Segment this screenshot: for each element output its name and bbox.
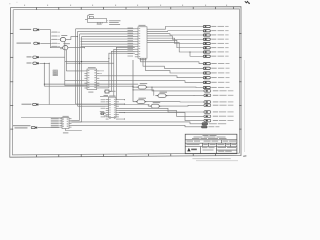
connector E2 [202,126,208,128]
speck top left [9,2,10,5]
relay K2 [158,94,166,98]
relay K3 [137,100,145,104]
U4 label above [109,95,115,98]
U4 inner pin marks [109,99,115,119]
relay K2 left feed [133,89,154,91]
transistor Q2 [63,46,68,50]
title row2 texts [187,140,194,143]
relay K4 left feed [147,104,149,106]
input connector J6 [13,125,31,126]
U2 left pins [84,70,87,72]
title row3 texts [187,143,200,146]
terminal label stack x53 [53,70,58,72]
wire input6 [38,127,60,129]
input connector J5 [22,104,32,105]
wire input1 [40,29,51,31]
U2 label above [88,66,96,69]
wire stub from cluster [107,20,109,22]
border zone ticks bottom [36,153,215,157]
U1 lower pins wires left-down [116,47,135,99]
border zone ticks top [36,7,233,10]
wire input2 [40,42,50,44]
wire input5 [39,104,149,106]
wire to row A8 branch [190,52,203,56]
IC U1 body [138,27,147,58]
vertical feed to relays [132,60,134,102]
U2 right pins [97,70,100,72]
border zone ticks left [10,33,13,129]
U2 label below [88,91,93,94]
wires group C [149,86,204,88]
U1 label bottom [140,58,147,61]
wires group B staircase [141,58,204,63]
long horizontal y117.5 [21,117,62,119]
U3 inner pin marks [63,118,69,127]
microtext bottom numbering [196,159,238,162]
title bottom cells text [202,146,208,149]
U1 inner pin marks [139,28,141,57]
connector group A stack [203,25,210,27]
border zone ticks right [239,33,241,129]
microtext below title [192,157,230,160]
border frame inner [12,9,239,155]
capacitor C10 [105,90,109,93]
bus vertical x44 [43,63,45,86]
bundle to IC3 risers [72,119,80,121]
transistor Q1 [61,37,66,41]
vertical drops below Q [64,42,66,86]
resistor R10 [104,94,109,97]
mark bottom right [243,155,246,158]
Q1 leads [59,38,62,40]
U3 label below [63,131,69,134]
IC U4 body [109,97,116,117]
U1 fan-in horizontals [76,28,135,30]
IC U2 body [87,69,97,90]
label below box [97,24,102,25]
border frame outer [10,7,241,158]
U4 right short wires [119,99,125,101]
notes text block [109,19,120,22]
U2 inner pin marks [88,70,97,88]
small parts below IC4 [100,113,106,115]
U3 left pins [59,118,62,120]
wire input4 [39,62,49,64]
connector group C stack [204,90,211,93]
bundle long verticals [75,29,77,104]
bundle to IC4 left pins [76,103,106,105]
IC U3 body [62,118,69,129]
U1 left pin stubs and labels [135,28,138,30]
wires group D staircase [119,108,204,112]
pin labels left bus [52,31,57,34]
TRW logo [187,148,190,152]
crystal wires [87,15,89,18]
long horizontals y84-86 [44,83,138,85]
U2 right wires short [99,70,104,72]
crystal Y1 label [89,13,94,16]
zone numerals top [24,5,227,6]
pin ticks below box [96,22,98,25]
wire input4 drop [48,63,50,104]
connector group B stack [203,62,210,64]
wires group B from IC2 [99,76,203,78]
input connector J4 [27,63,32,64]
U3 below wire [66,129,82,131]
crystal Y1 [89,16,93,18]
input connector J3 [27,56,32,57]
oscillator group box [88,18,107,22]
relay K4 [151,104,159,108]
U1 fan-out to group A [147,27,203,30]
U3 label above [63,115,69,118]
connector group D stack [204,111,211,114]
input connector J2 [17,43,32,44]
input connector J1 [20,29,32,30]
title text rows [203,134,209,137]
wires U3 to group E [72,122,203,124]
check mark top right [245,1,250,3]
U1 label top [139,24,146,27]
bus vertical left [50,30,52,48]
U4 left pins [106,99,109,101]
wire input3 [39,56,64,58]
right edge shadow [244,60,246,152]
title block frame [185,134,237,154]
U3 right pins [69,118,72,120]
connector E1 [202,123,208,125]
Q2 leads [51,46,63,48]
stubs to IC2 left [66,70,84,72]
U4 left pin labels [101,98,106,101]
U4 right pins [116,99,119,101]
bundle horizontals mid [65,61,109,63]
relay K1 [138,85,146,89]
title block dividers [185,140,237,154]
